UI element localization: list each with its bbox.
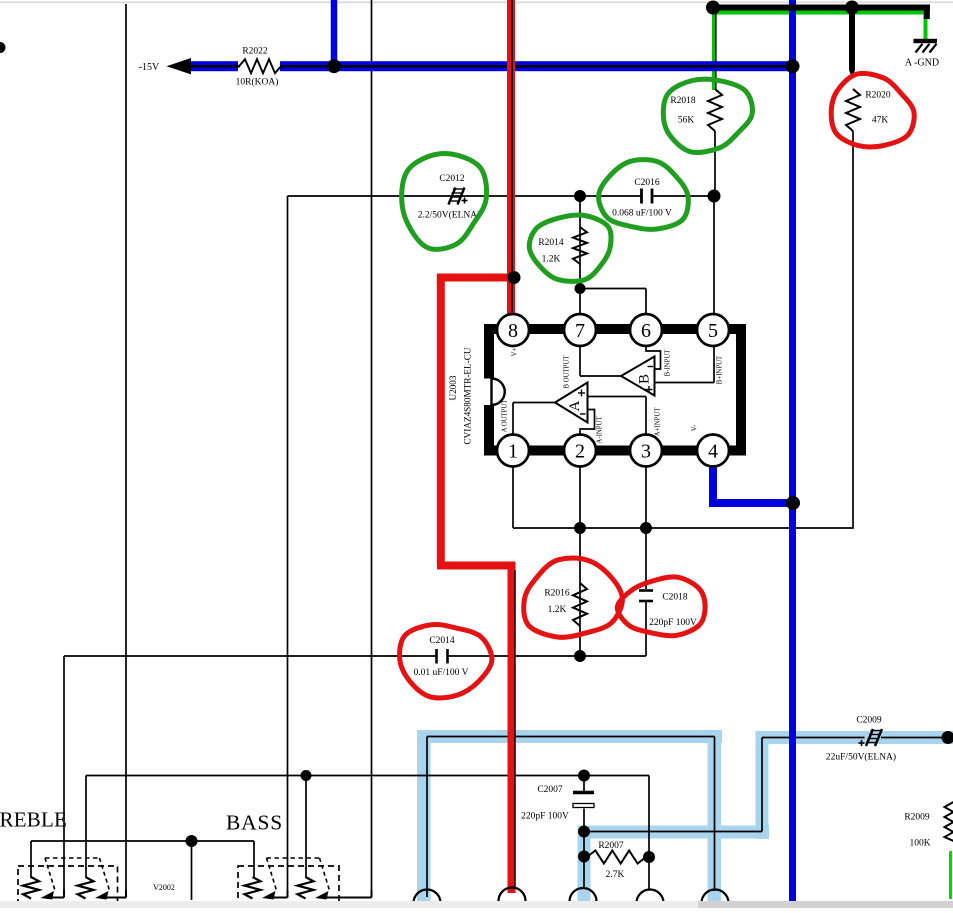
wire thick black stub to R2020 xyxy=(849,6,855,70)
connector pin circle 3 xyxy=(570,888,597,902)
wire pin6 link to pin7 node xyxy=(580,288,646,290)
junction dot xyxy=(643,851,655,863)
svg-text:47K: 47K xyxy=(872,116,889,126)
svg-text:10R(KOA): 10R(KOA) xyxy=(236,77,279,88)
wire green-marked vertical at ground xyxy=(924,13,928,40)
wire R2014 vertical pin7 net xyxy=(579,196,581,314)
svg-text:A-INPUT: A-INPUT xyxy=(597,416,604,444)
wire blue -15V rail horizontal xyxy=(190,61,238,71)
wire C2018 vertical xyxy=(645,528,647,589)
potentiometer treble 2 xyxy=(78,877,94,899)
svg-text:A -GND: A -GND xyxy=(905,58,939,69)
svg-text:1.2K: 1.2K xyxy=(542,255,561,265)
resistor R2007 2.7K xyxy=(587,851,646,864)
svg-text:R2009: R2009 xyxy=(904,813,930,823)
svg-text:U2003: U2003 xyxy=(448,375,458,400)
svg-text:R2018: R2018 xyxy=(670,96,696,106)
svg-text:B-INPUT: B-INPUT xyxy=(665,349,672,377)
wire B output to pin 7 xyxy=(579,346,581,376)
junction dot xyxy=(575,283,586,294)
red marker circle around C2014 xyxy=(400,624,492,698)
svg-text:R2014: R2014 xyxy=(538,238,564,248)
IC pin 5 xyxy=(697,314,729,346)
wire highlight (light blue) jog horizontal xyxy=(578,826,770,839)
wire A output to pin 1 xyxy=(513,402,555,404)
wire vertical x=191 down from y=841 net xyxy=(191,841,193,900)
wire light-blue-marked vertical x=427 xyxy=(426,737,428,898)
green marker circle around C2012 xyxy=(402,154,487,250)
svg-text:3: 3 xyxy=(641,441,651,463)
wire vertical x=649 down to R2007 and connector xyxy=(648,776,650,890)
IC pin 2 xyxy=(564,435,596,467)
svg-text:7: 7 xyxy=(575,320,585,342)
potentiometer treble 1 xyxy=(23,877,39,899)
treble gang link dashed xyxy=(45,857,100,859)
wire vertical bus x=371 xyxy=(371,0,373,897)
wire red branch vertical x=441 xyxy=(437,274,445,566)
svg-text:-15V: -15V xyxy=(139,62,160,73)
IC pin 8 xyxy=(497,314,529,346)
wire B minus input to pin 6 xyxy=(646,346,661,369)
junction dot xyxy=(574,522,586,534)
green line at right edge xyxy=(949,851,952,899)
junction dot xyxy=(706,1,720,15)
bass gang link dashed xyxy=(267,857,320,859)
wire vertical x=254 to bass pot 1 xyxy=(253,841,255,878)
svg-text:V+: V+ xyxy=(512,347,519,356)
junction dot xyxy=(708,190,721,203)
wire red jog horizontal y=565 xyxy=(437,562,515,570)
svg-text:V2002: V2002 xyxy=(153,883,175,892)
wire pin5 vertical xyxy=(713,196,715,314)
svg-text:220pF 100V: 220pF 100V xyxy=(649,618,697,628)
op-amp IC U2003 body xyxy=(489,329,741,451)
capacitor C2014 0.01uF xyxy=(435,649,438,664)
svg-text:R2020: R2020 xyxy=(865,91,891,101)
junction dot xyxy=(508,271,521,284)
junction dot xyxy=(327,59,341,73)
junction dot xyxy=(578,770,590,782)
wire vertical bus x=287 from C2012 net down to bass pot wiper xyxy=(287,196,289,897)
junction dot xyxy=(786,59,800,73)
wire highlight (light blue) jog vertical xyxy=(756,731,769,839)
potentiometer bass 1 xyxy=(245,877,261,899)
svg-text:V-: V- xyxy=(692,424,699,431)
wire horizontal net y=841 xyxy=(31,840,254,842)
resistor R2022 xyxy=(239,59,281,73)
bass pot dashed box xyxy=(238,866,339,906)
svg-text:C2016: C2016 xyxy=(634,178,660,188)
wire thick black top A-GND rail xyxy=(711,5,930,11)
svg-text:2.2/50V(ELNA): 2.2/50V(ELNA) xyxy=(418,210,481,221)
wire highlight (light blue) A-net horizontal xyxy=(417,730,722,743)
green marker circle around R2014 xyxy=(529,215,611,281)
wire red V+ vertical to pin 8 xyxy=(507,0,515,314)
svg-text:C2018: C2018 xyxy=(662,593,688,603)
potentiometer bass 2 xyxy=(298,877,314,899)
wire red branch horizontal y=277 xyxy=(437,274,511,282)
svg-text:B+INPUT: B+INPUT xyxy=(717,355,724,384)
capacitor C2016 0.068uF xyxy=(640,189,643,204)
IC pin 3 xyxy=(630,435,662,467)
svg-text:22uF/50V(ELNA): 22uF/50V(ELNA) xyxy=(826,752,896,763)
svg-text:8: 8 xyxy=(508,320,518,342)
junction dot xyxy=(942,731,953,744)
svg-text:4: 4 xyxy=(708,441,718,463)
wire C2009 horizontal y=737 xyxy=(762,737,865,739)
op-amp A triangle xyxy=(555,383,588,423)
arrow -15V supply xyxy=(167,58,192,74)
connector pin circle 5 xyxy=(702,890,729,903)
svg-text:BASS: BASS xyxy=(226,811,283,835)
junction dot xyxy=(786,496,800,510)
red marker circle around C2018 xyxy=(617,577,705,636)
wire pin2 lead xyxy=(579,466,581,528)
junction dot xyxy=(301,770,312,781)
capacitor C2018 220pF xyxy=(639,589,653,592)
svg-text:56K: 56K xyxy=(678,116,695,126)
svg-text:B OUTPUT: B OUTPUT xyxy=(564,355,571,389)
svg-text:2.7K: 2.7K xyxy=(606,870,625,880)
junction dot xyxy=(186,835,198,847)
wire A plus input to pin 3 xyxy=(588,396,647,398)
wire blue pin4 to rail xyxy=(713,466,796,503)
resistor R2020 47K xyxy=(846,89,860,131)
svg-text:R2022: R2022 xyxy=(242,47,268,57)
svg-text:B: B xyxy=(637,374,653,384)
wire R2020 lead down to y=528 net xyxy=(852,131,854,528)
wire blue vertical stub x=334 xyxy=(331,0,338,68)
svg-text:0.01 uF/100 V: 0.01 uF/100 V xyxy=(414,668,469,678)
IC pin 1 xyxy=(497,435,529,467)
svg-text:220pF 100V: 220pF 100V xyxy=(521,812,569,822)
svg-text:R2016: R2016 xyxy=(544,589,570,599)
wire pin1/pin2/pin3 horizontal net y=528 xyxy=(512,466,514,528)
resistor R2018 56K xyxy=(708,89,722,131)
wire horizontal net y=775 xyxy=(86,775,649,777)
wire pin3 lead xyxy=(645,466,647,528)
wire C2007 vertical chain xyxy=(583,776,585,792)
green marker circle around R2018 xyxy=(663,79,752,152)
wire green-marked vertical to R2018 xyxy=(712,13,716,91)
svg-text:6: 6 xyxy=(641,320,651,342)
resistor R2014 1.2K xyxy=(573,227,587,264)
red marker circle around R2016 xyxy=(524,558,623,637)
resistor R2009 100K (cut at edge) xyxy=(945,802,953,841)
wire vertical bus x=126 xyxy=(125,4,127,897)
resistor R2016 1.2K xyxy=(573,583,587,626)
capacitor C2007 220pF xyxy=(573,791,594,794)
wire B plus input to pin 5 xyxy=(713,346,715,383)
wire vertical x=64 down to treble pot wiper xyxy=(63,656,65,897)
wire R2018 lead down to pin5 node xyxy=(714,131,716,196)
wire light-blue-marked horizontal y=736 xyxy=(427,736,715,738)
wire blue vertical rail x=792 xyxy=(789,0,796,901)
wire light-blue-marked jog vertical x=762 xyxy=(761,738,763,832)
junction dot xyxy=(574,650,586,662)
svg-text:100K: 100K xyxy=(909,839,930,849)
wire vertical x=31 to treble pot 1 xyxy=(30,841,32,878)
wire highlight (light blue) C2007 vertical xyxy=(578,832,591,901)
bullet at left edge xyxy=(0,42,6,53)
IC pin 7 xyxy=(564,314,596,346)
junction dot xyxy=(574,190,586,202)
wire A minus input to pin 2 xyxy=(580,410,595,436)
junction dot xyxy=(578,826,590,838)
wire highlight (light blue) center vertical xyxy=(708,730,722,901)
wire red vertical to bottom connector xyxy=(508,562,516,893)
red marker circle around R2020 xyxy=(831,73,914,147)
wire vertical x=86 to treble pot 2 xyxy=(85,776,87,879)
svg-text:0.068 uF/100 V: 0.068 uF/100 V xyxy=(612,209,672,219)
svg-text:C2012: C2012 xyxy=(439,174,465,184)
wire highlight (light blue) left vertical xyxy=(417,730,431,901)
wire green-marked A-GND horizontal xyxy=(713,11,927,15)
connector pin circle 1 xyxy=(414,890,441,903)
op-amp B triangle xyxy=(621,357,655,396)
wire C2012/C2016 horizontal net y=196 xyxy=(288,195,642,197)
junction dot xyxy=(640,522,652,534)
svg-text:5: 5 xyxy=(708,320,718,342)
svg-text:1: 1 xyxy=(508,441,518,463)
svg-text:A+INPUT: A+INPUT xyxy=(655,407,662,437)
green marker circle around C2016 xyxy=(599,160,689,230)
svg-text:CVIAZ4S80MTR-EL-CU: CVIAZ4S80MTR-EL-CU xyxy=(463,347,473,444)
svg-text:A OUTPUT: A OUTPUT xyxy=(502,399,509,433)
wire vertical x=306 to bass pot 2 xyxy=(305,776,307,879)
capacitor C2009 electrolytic 22uF xyxy=(866,729,873,746)
treble pot dashed box xyxy=(18,866,118,906)
wire light-blue-marked jog horizontal y=831 xyxy=(584,831,762,833)
IC pin 4 xyxy=(697,435,729,467)
wire R2016 vertical xyxy=(579,528,581,656)
svg-text:C2007: C2007 xyxy=(537,785,563,795)
svg-text:TREBLE: TREBLE xyxy=(0,808,67,832)
svg-text:R2007: R2007 xyxy=(598,841,624,851)
wire light-blue-marked vertical x=714 xyxy=(714,737,716,892)
connector pin circle 4 xyxy=(637,890,664,903)
IC pin 6 xyxy=(630,314,662,346)
junction dot xyxy=(845,1,859,15)
wire highlight (light blue) C2009 horizontal xyxy=(756,731,953,744)
svg-text:1.2K: 1.2K xyxy=(548,605,567,615)
svg-text:A: A xyxy=(567,400,583,411)
connector pin circle 2 xyxy=(499,887,526,901)
svg-text:2: 2 xyxy=(575,441,585,463)
capacitor C2012 electrolytic 2.2/50V xyxy=(449,188,456,205)
wire C2014 horizontal net y=656 xyxy=(64,655,436,657)
ground symbol A-GND xyxy=(914,39,938,43)
svg-text:C2014: C2014 xyxy=(429,636,455,646)
svg-text:C2009: C2009 xyxy=(856,716,882,726)
junction dot xyxy=(578,851,590,863)
